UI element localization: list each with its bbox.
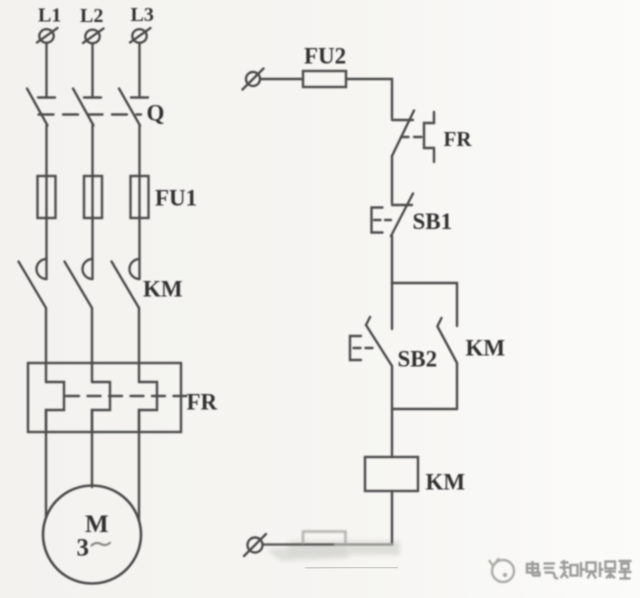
fuse FU1 pole 1 <box>38 176 56 218</box>
char 电 <box>527 561 540 576</box>
svg-text:FU2: FU2 <box>304 44 346 69</box>
erased ghost fuse on bottom wire <box>303 532 346 545</box>
svg-text:L3: L3 <box>131 4 154 26</box>
wire KM1 to FR <box>45 308 47 382</box>
branch top wire <box>392 283 457 326</box>
svg-text:KM: KM <box>466 336 506 361</box>
wire L1 to fuse <box>45 126 47 280</box>
wire L3 top <box>138 44 140 98</box>
motor M circle <box>43 486 141 584</box>
FR thermal actuator bracket <box>424 112 434 162</box>
svg-text:SB2: SB2 <box>398 347 438 372</box>
wire L2 to fuse <box>91 126 93 280</box>
FR linkage dashed <box>66 395 187 397</box>
fuse FU2 <box>303 71 346 87</box>
wire SB2 to coil <box>391 366 393 457</box>
KM auxiliary contact (NO) <box>438 318 458 409</box>
watermark text 电气知识课堂 <box>527 560 632 579</box>
contactor KM main contact 1 <box>19 259 47 308</box>
terminal L3 <box>130 28 151 43</box>
branch bottom wire <box>392 408 457 410</box>
char 课 <box>600 562 616 579</box>
start button SB2 (NO) <box>350 317 392 366</box>
wire coil to bottom <box>391 491 393 545</box>
FR heater element 3 <box>139 382 157 432</box>
char 堂 <box>619 561 632 579</box>
wire L2 top <box>91 44 93 97</box>
breaker Q linkage dashed <box>39 113 142 115</box>
svg-text:L1: L1 <box>38 5 61 27</box>
wire FR to motor 2 <box>91 410 93 487</box>
terminal L2 <box>83 29 104 44</box>
breaker Q pole 1 <box>27 89 55 126</box>
wire SB1 to branch <box>391 236 393 283</box>
bottom wire faded part <box>335 543 393 545</box>
svg-text:FR: FR <box>444 127 473 151</box>
svg-text:FU1: FU1 <box>155 186 197 211</box>
wire KM3 to FR <box>138 308 140 382</box>
fuse FU1 pole 3 <box>131 176 149 218</box>
wire FU2 to corner and down <box>346 79 392 118</box>
svg-text:FR: FR <box>187 390 218 415</box>
faint scan line <box>305 566 398 569</box>
svg-text:SB1: SB1 <box>413 209 453 234</box>
FR heater element 2 <box>92 382 110 432</box>
svg-text:L2: L2 <box>80 5 103 27</box>
svg-text:3: 3 <box>77 535 90 562</box>
contactor KM main contact 3 <box>112 259 140 308</box>
stop button SB1 (NC) <box>372 194 414 237</box>
bottom wire <box>263 543 335 545</box>
contactor coil KM <box>365 457 418 491</box>
svg-text:KM: KM <box>143 277 183 302</box>
FR NC contact (control) <box>392 111 414 157</box>
wire terminal to FU2 <box>260 78 303 80</box>
wire FR to motor 1 <box>45 410 47 518</box>
wire L1 top <box>45 44 47 98</box>
svg-text:Q: Q <box>147 101 165 126</box>
fuse FU1 pole 2 <box>84 176 102 218</box>
svg-text:KM: KM <box>426 470 466 495</box>
thermal relay FR box <box>28 363 181 432</box>
eraser smudge under bottom wire <box>266 541 400 561</box>
wire FR to motor 3 <box>138 410 140 521</box>
wire KM2 to FR <box>91 308 93 382</box>
wire L3 to fuse <box>138 126 140 280</box>
terminal L1 <box>37 28 58 43</box>
contactor KM main contact 2 <box>65 259 93 308</box>
wire FR to SB1 <box>391 156 393 203</box>
FR contact linkage dashed <box>401 136 423 138</box>
char 识 <box>581 562 596 579</box>
char 气 <box>544 564 559 579</box>
char 知 <box>560 560 578 578</box>
breaker Q pole 3 <box>119 89 148 126</box>
control terminal bottom <box>244 534 266 556</box>
wire into SB2 <box>391 283 393 329</box>
motor tilde mark <box>92 543 111 546</box>
control terminal top <box>243 69 264 90</box>
FR heater element 1 <box>46 382 64 432</box>
breaker Q pole 2 <box>73 89 101 126</box>
watermark logo <box>489 558 514 582</box>
